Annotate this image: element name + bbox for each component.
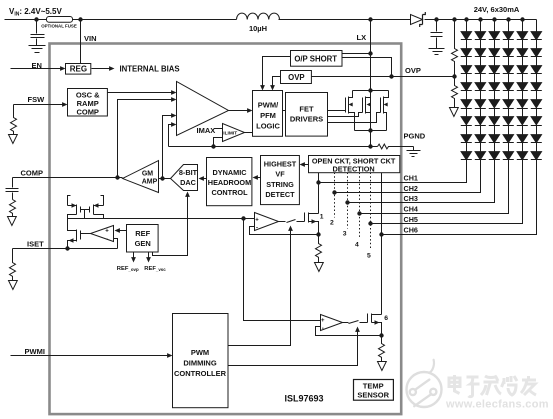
transistor Q1 power FET (328, 91, 355, 131)
node junction dot ISET (65, 246, 69, 250)
pin number label 6 (384, 315, 388, 322)
arrowhead EN into REG (60, 66, 65, 71)
op-amp ISET error amp (91, 226, 114, 242)
pin label FSW (28, 95, 46, 104)
svg-text:LX: LX (357, 33, 367, 42)
transistor Q2 power FET (328, 97, 371, 117)
svg-text:TEMP: TEMP (363, 382, 384, 391)
pin label PGND (404, 132, 426, 141)
resistor channel 1 source (316, 235, 322, 263)
svg-text:COMP: COMP (76, 108, 99, 117)
wire channel 1 comparator output (279, 221, 286, 223)
wire REG to internal bias (92, 68, 113, 70)
pin label CH6 (404, 226, 418, 235)
wire REF_vsc output (148, 252, 150, 260)
pin number label 5 (367, 253, 371, 260)
node junction dot CH5 (368, 221, 372, 225)
regulator REG box (66, 64, 91, 75)
wire current sense to comparator (169, 125, 174, 147)
wire ILIMIT output (245, 132, 253, 134)
svg-text:+: + (255, 217, 259, 223)
svg-text:COMP: COMP (21, 169, 44, 178)
svg-text:-: - (322, 326, 324, 332)
watermark elecfans logo (407, 360, 442, 407)
detector OVP box (281, 71, 312, 84)
wire mirror gates tie (81, 210, 90, 219)
fuse F1 OPTIONAL FUSE (47, 17, 73, 23)
svg-text:VF: VF (275, 170, 285, 179)
logic block PWM/PFM LOGIC (253, 91, 283, 137)
resistor channel 6 source (379, 336, 385, 362)
wire comparator output (229, 110, 251, 112)
wire channel 6 feedback (316, 327, 382, 336)
LED string column 1 (466, 20, 468, 160)
svg-text:ILIMIT: ILIMIT (223, 131, 237, 137)
ground output cap (429, 49, 445, 55)
wire comparator 6 positive feed (244, 219, 321, 321)
svg-text:PWM/: PWM/ (258, 101, 279, 110)
pin label LX (357, 33, 367, 42)
svg-text:CONTROL: CONTROL (211, 188, 248, 197)
wire OPEN CKT to HIGHEST (303, 164, 309, 166)
IC name label ISL97693 (285, 394, 324, 404)
svg-text:HIGHEST: HIGHEST (264, 159, 297, 168)
wire CH4 channel line (360, 160, 509, 214)
wire O/P SHORT sense to LX (342, 53, 371, 55)
svg-text:GEN: GEN (135, 239, 151, 248)
arrowhead comparator input 4 (171, 122, 176, 127)
wire detection channel 3 drop dotted (347, 173, 349, 229)
wire DHC to DAC (201, 178, 207, 180)
node junction dot sense LX bottom (368, 144, 372, 148)
resistor COMP network (10, 200, 16, 217)
wire CH3 channel line (348, 160, 495, 203)
arrowhead comparator input 2 (171, 97, 176, 102)
svg-text:REF_ovp: REF_ovp (117, 266, 139, 272)
op-amp channel 1 comparator (255, 213, 279, 231)
wire VIN to REG (80, 20, 82, 64)
wire HIGHEST to DHC (255, 177, 261, 179)
wire IMAX stub to ILIMIT (215, 128, 223, 130)
wire sense branch to ILIMIT (214, 138, 223, 147)
ground arrow OVP divider (450, 108, 459, 117)
node label 24V, 6x30mA (474, 5, 520, 14)
svg-text:REF: REF (135, 229, 150, 238)
node junction dot LX top rail (368, 17, 372, 21)
pin label CH3 (404, 194, 418, 203)
node junction dot LED col 3 top (492, 17, 496, 21)
wire DAC node to comparator (163, 116, 174, 179)
op-amp ILIMIT comparator (223, 124, 245, 142)
svg-text:FET: FET (299, 105, 314, 114)
IC U1 ISL97693 chip boundary (50, 44, 402, 415)
transistor channel 6 NMOS (368, 314, 382, 336)
wire channel 1 feedback (250, 227, 319, 235)
pin number label 1 (320, 214, 324, 221)
node junction dot LED col 4 top (506, 17, 510, 21)
wire CH2 channel line (335, 160, 481, 193)
reference REF GEN box (127, 225, 159, 253)
diode D1 schottky (411, 15, 423, 25)
pin label CH2 (404, 184, 418, 193)
wire REF GEN to op-amp (117, 230, 127, 232)
node junction dot LED col 1 top (464, 17, 468, 21)
wire detection channel 4 drop dotted (359, 173, 361, 239)
svg-text:ISL97693: ISL97693 (285, 394, 324, 404)
wire GM AMP input from DAC (159, 178, 171, 180)
inductor L1 10uH (237, 13, 280, 19)
svg-text:DRIVERS: DRIVERS (290, 115, 323, 124)
wire detection channel 2 drop dotted (334, 173, 336, 218)
svg-text:CH3: CH3 (404, 194, 418, 203)
arrowhead comparator input 3 (171, 113, 176, 118)
wire ISET op-amp feedback (114, 239, 118, 249)
pin label OVP (405, 66, 421, 75)
wire mirror output rail to comparators (68, 218, 255, 220)
node junction dot LED col 2 top (478, 17, 482, 21)
node junction dot LX sense (368, 51, 372, 55)
svg-text:FSW: FSW (28, 95, 46, 104)
sensor TEMP SENSOR box (354, 380, 394, 401)
svg-text:OVP: OVP (405, 66, 421, 75)
ground arrow FSW (9, 135, 18, 144)
wire top supply rail left (5, 19, 237, 21)
node junction dot OVP tap (452, 74, 456, 78)
node junction dot FET drain LX (368, 88, 372, 92)
svg-text:OPTIONAL FUSE: OPTIONAL FUSE (41, 24, 77, 29)
transistor M3 ISET NMOS (68, 219, 91, 249)
op-amp channel 6 comparator (321, 315, 343, 331)
wire OVP box to PWM logic (273, 77, 281, 88)
svg-text:CH5: CH5 (404, 215, 418, 224)
LED string column 6 (536, 20, 538, 160)
node junction dot CH6 (379, 232, 383, 236)
arrowhead into DAC bottom (185, 192, 190, 197)
svg-text:O/P SHORT: O/P SHORT (294, 54, 337, 63)
resistor R_ovp_top (452, 20, 458, 77)
resistor R_ovp_bottom (452, 77, 458, 108)
node junction dot channel 1 source (316, 232, 320, 236)
wire LX vertical (370, 20, 372, 147)
wire comparator 1 positive input (244, 218, 255, 220)
svg-text:GM: GM (142, 170, 153, 177)
arrowhead REF_ovp (131, 257, 136, 262)
op-amp GM AMP (123, 161, 159, 193)
svg-text:PWMI: PWMI (25, 347, 45, 356)
svg-text:PWM: PWM (191, 348, 209, 357)
block HIGHEST VF STRING DETECT (261, 156, 300, 205)
svg-text:REF_vsc: REF_vsc (144, 266, 166, 272)
arrowhead into DAC right (199, 176, 204, 181)
node junction dot CH3 (345, 200, 349, 204)
pin number label 2 (330, 220, 334, 227)
node junction dot fuse right (78, 17, 82, 21)
svg-text:HEADROOM: HEADROOM (208, 178, 251, 187)
wire REF_ovp output (133, 252, 135, 260)
node junction dot OVP internal (389, 74, 393, 78)
node junction dot CH1 (316, 180, 320, 184)
transistor power FET rail top (353, 90, 389, 92)
block DYNAMIC HEADROOM CONTROL (207, 158, 252, 206)
capacitor C_in (31, 20, 45, 46)
svg-text:DETECT: DETECT (265, 190, 295, 199)
ground PGND (407, 147, 421, 157)
pin label VIN (84, 34, 97, 43)
wire PWM logic to FET drivers (283, 110, 286, 112)
svg-text:PFM: PFM (260, 111, 276, 120)
wire CH1 channel line (319, 160, 467, 183)
wire detection channel 6 drop (381, 173, 383, 315)
svg-text:-: - (256, 226, 258, 232)
wire O/P SHORT to PWM logic (263, 57, 291, 88)
arrowhead switch 1 control (288, 226, 293, 231)
wire O/P SHORT sense to OVP line (342, 58, 392, 77)
wire top rail right (diode to LED array) (425, 19, 537, 21)
node junction dot CH2 (332, 190, 336, 194)
arrowhead REF_vsc (146, 257, 151, 262)
transistor Q3 power FET (328, 91, 389, 131)
wire switch 6 control from PWM dimming (228, 330, 358, 366)
wire COMP input (13, 177, 123, 179)
detector O/P SHORT box (291, 51, 343, 67)
svg-text:+: + (321, 318, 325, 324)
arrowhead into HIGHEST (300, 162, 305, 167)
switch channel 1 (287, 220, 305, 223)
node junction dot output cap (434, 17, 438, 21)
pin label COMP (21, 169, 44, 178)
ground Vin cap (29, 46, 46, 53)
wire OSC output to comparator (108, 92, 174, 94)
node junction dot FET source LX (368, 128, 372, 132)
wire FSW input (14, 104, 66, 106)
switch channel 6 (349, 321, 368, 324)
LED string column 4 (508, 20, 510, 160)
wire ISET input (13, 248, 118, 250)
wire top rail middle (inductor to diode) (279, 19, 411, 21)
DAC 8-BIT DAC block (171, 165, 198, 191)
watermark url www.elecfans.com (445, 399, 549, 411)
svg-text:DIMMING: DIMMING (183, 358, 216, 367)
block OPEN CKT SHORT CKT DETECTION (309, 156, 400, 173)
transistor M2 PMOS mirror right (90, 196, 104, 219)
svg-text:LOGIC: LOGIC (256, 122, 280, 131)
arrowhead FSW into OSC (62, 102, 67, 107)
pin label CH5 (404, 215, 418, 224)
controller PWM DIMMING CONTROLLER box (173, 314, 229, 408)
node junction dot COMP riser (115, 175, 119, 179)
resistor FSW pulldown (11, 105, 17, 135)
wire detection channel 1 drop (318, 173, 320, 214)
ground arrow channel 1 (315, 263, 324, 272)
wire CH6 channel line (382, 160, 537, 235)
svg-text:REG: REG (70, 64, 87, 73)
svg-text:STRING: STRING (266, 180, 294, 189)
resistor sense PGND squiggle (378, 144, 414, 149)
op-amp main PWM comparator (177, 82, 229, 136)
transistor power FET rail bottom (355, 130, 387, 132)
svg-text:CH1: CH1 (404, 173, 418, 182)
svg-text:VIN: VIN (84, 34, 97, 43)
pin label ISET (27, 240, 44, 249)
pin label CH4 (404, 205, 418, 214)
svg-text:ISET: ISET (27, 240, 44, 249)
svg-text:CH4: CH4 (404, 205, 418, 214)
node VIN supply label (9, 7, 62, 18)
svg-text:CONTROLLER: CONTROLLER (174, 369, 227, 378)
capacitor COMP network (6, 178, 19, 200)
svg-text:CH6: CH6 (404, 226, 418, 235)
svg-text:DAC: DAC (180, 178, 197, 187)
wire channel 1 drain (318, 213, 320, 215)
node junction dot channel 6 source (379, 333, 383, 337)
capacitor C_out (431, 20, 443, 49)
wire channel 6 comparator output (343, 322, 349, 324)
resistor ISET pulldown (10, 249, 16, 281)
svg-text:INTERNAL BIAS: INTERNAL BIAS (120, 64, 180, 73)
arrowhead O/P SHORT down (260, 85, 265, 90)
wire COMP riser to comparator (118, 100, 174, 178)
arrowhead internal bias (109, 66, 114, 71)
net label REF_vsc (144, 266, 166, 272)
node junction dot sense ILIMIT branch (211, 144, 215, 148)
driver block FET DRIVERS (286, 93, 328, 137)
transistor M1 PMOS mirror left (68, 196, 81, 219)
arrowhead into DHC (253, 175, 258, 180)
wire detection channel 5 drop dotted (370, 173, 372, 249)
LED string column 2 (480, 20, 482, 160)
node junction dot OVP divider top (452, 17, 456, 21)
wire current sense line (169, 146, 378, 148)
LED string column 3 (494, 20, 496, 160)
arrowhead into PWM PFM logic (247, 108, 252, 113)
svg-text:8-BIT: 8-BIT (179, 168, 198, 177)
svg-text:4: 4 (355, 242, 359, 249)
arrowhead comparator input 1 (171, 90, 176, 95)
wire REF GEN to DAC riser (153, 195, 188, 256)
arrowhead PWMI into PWM dimming controller (167, 353, 172, 358)
svg-text:CH2: CH2 (404, 184, 418, 193)
svg-text:IMAX: IMAX (197, 126, 216, 135)
arrowhead OVP down (270, 85, 275, 90)
arrowhead into ISET op-amp (115, 228, 120, 233)
wire OVP sense line (312, 76, 455, 78)
arrowhead switch 6 control (355, 327, 360, 332)
ground arrow COMP (8, 217, 17, 226)
svg-text:6: 6 (384, 315, 388, 322)
svg-text:www.elecfans.com: www.elecfans.com (445, 399, 549, 411)
svg-text:24V, 6x30mA: 24V, 6x30mA (474, 5, 520, 14)
oscillator OSC & RAMP COMP box (68, 89, 108, 117)
transistor channel 1 NMOS (305, 213, 319, 235)
ground arrow ISET (9, 281, 18, 290)
svg-text:OVP: OVP (288, 73, 304, 82)
node junction dot DAC-GM node (160, 176, 164, 180)
watermark chinese text 电子发烧友 (449, 375, 536, 397)
svg-text:SENSOR: SENSOR (357, 391, 389, 400)
LED string column 5 (522, 20, 524, 160)
pin number label 4 (355, 242, 359, 249)
svg-text:+: + (105, 229, 109, 235)
node junction dot Vin cap (34, 17, 38, 21)
svg-text:AMP: AMP (142, 179, 158, 186)
svg-text:PGND: PGND (404, 132, 426, 141)
svg-text:1: 1 (320, 214, 324, 221)
wire CH5 channel line (371, 160, 523, 224)
ground arrow channel 6 (378, 362, 387, 371)
svg-text:10µH: 10µH (249, 24, 267, 33)
node junction dot comparator 6 branch (241, 216, 245, 220)
wire PWMI input (11, 355, 171, 357)
pin label EN (32, 61, 42, 70)
svg-text:DETECTION: DETECTION (333, 165, 375, 174)
net label REF_ovp (117, 266, 139, 272)
pin label CH1 (404, 173, 418, 182)
svg-text:-: - (106, 237, 108, 243)
node junction dot LED col 5 top (520, 17, 524, 21)
net label IMAX (197, 126, 216, 135)
svg-text:DYNAMIC: DYNAMIC (212, 168, 247, 177)
pin label PWMI (25, 347, 45, 356)
svg-text:5: 5 (367, 253, 371, 260)
wire switch 1 control from PWM dimming (228, 229, 291, 346)
svg-text:3: 3 (343, 231, 347, 238)
svg-text:2: 2 (330, 220, 334, 227)
wire EN input (11, 68, 64, 70)
net label INTERNAL BIAS (120, 64, 180, 73)
pin number label 3 (343, 231, 347, 238)
node junction dot CH4 (357, 211, 361, 215)
